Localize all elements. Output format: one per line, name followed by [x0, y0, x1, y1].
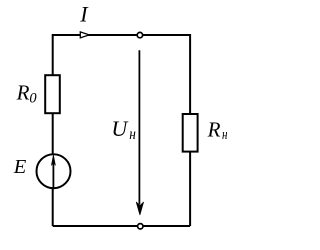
wire top	[53, 34, 190, 36]
voltage arrow Uн (shaft)	[138, 50, 140, 204]
wire right	[189, 34, 191, 226]
resistor R0 (body)	[45, 75, 60, 113]
node a (top terminal)	[137, 32, 142, 37]
voltage arrow Uн (head)	[136, 202, 143, 215]
svg-text:R0: R0	[16, 80, 38, 106]
svg-text:I: I	[79, 2, 89, 27]
svg-text:E: E	[13, 156, 27, 178]
svg-text:Uн: Uн	[111, 116, 135, 143]
EMF source E (circle)	[37, 154, 71, 188]
current arrow (triangle on top wire)	[80, 32, 89, 38]
wire bottom	[53, 225, 190, 227]
EMF internal arrow	[52, 162, 54, 189]
wire left	[52, 34, 54, 226]
resistor Rн (body)	[183, 114, 198, 152]
node b (bottom terminal)	[138, 224, 143, 229]
svg-text:Rн: Rн	[207, 118, 228, 143]
